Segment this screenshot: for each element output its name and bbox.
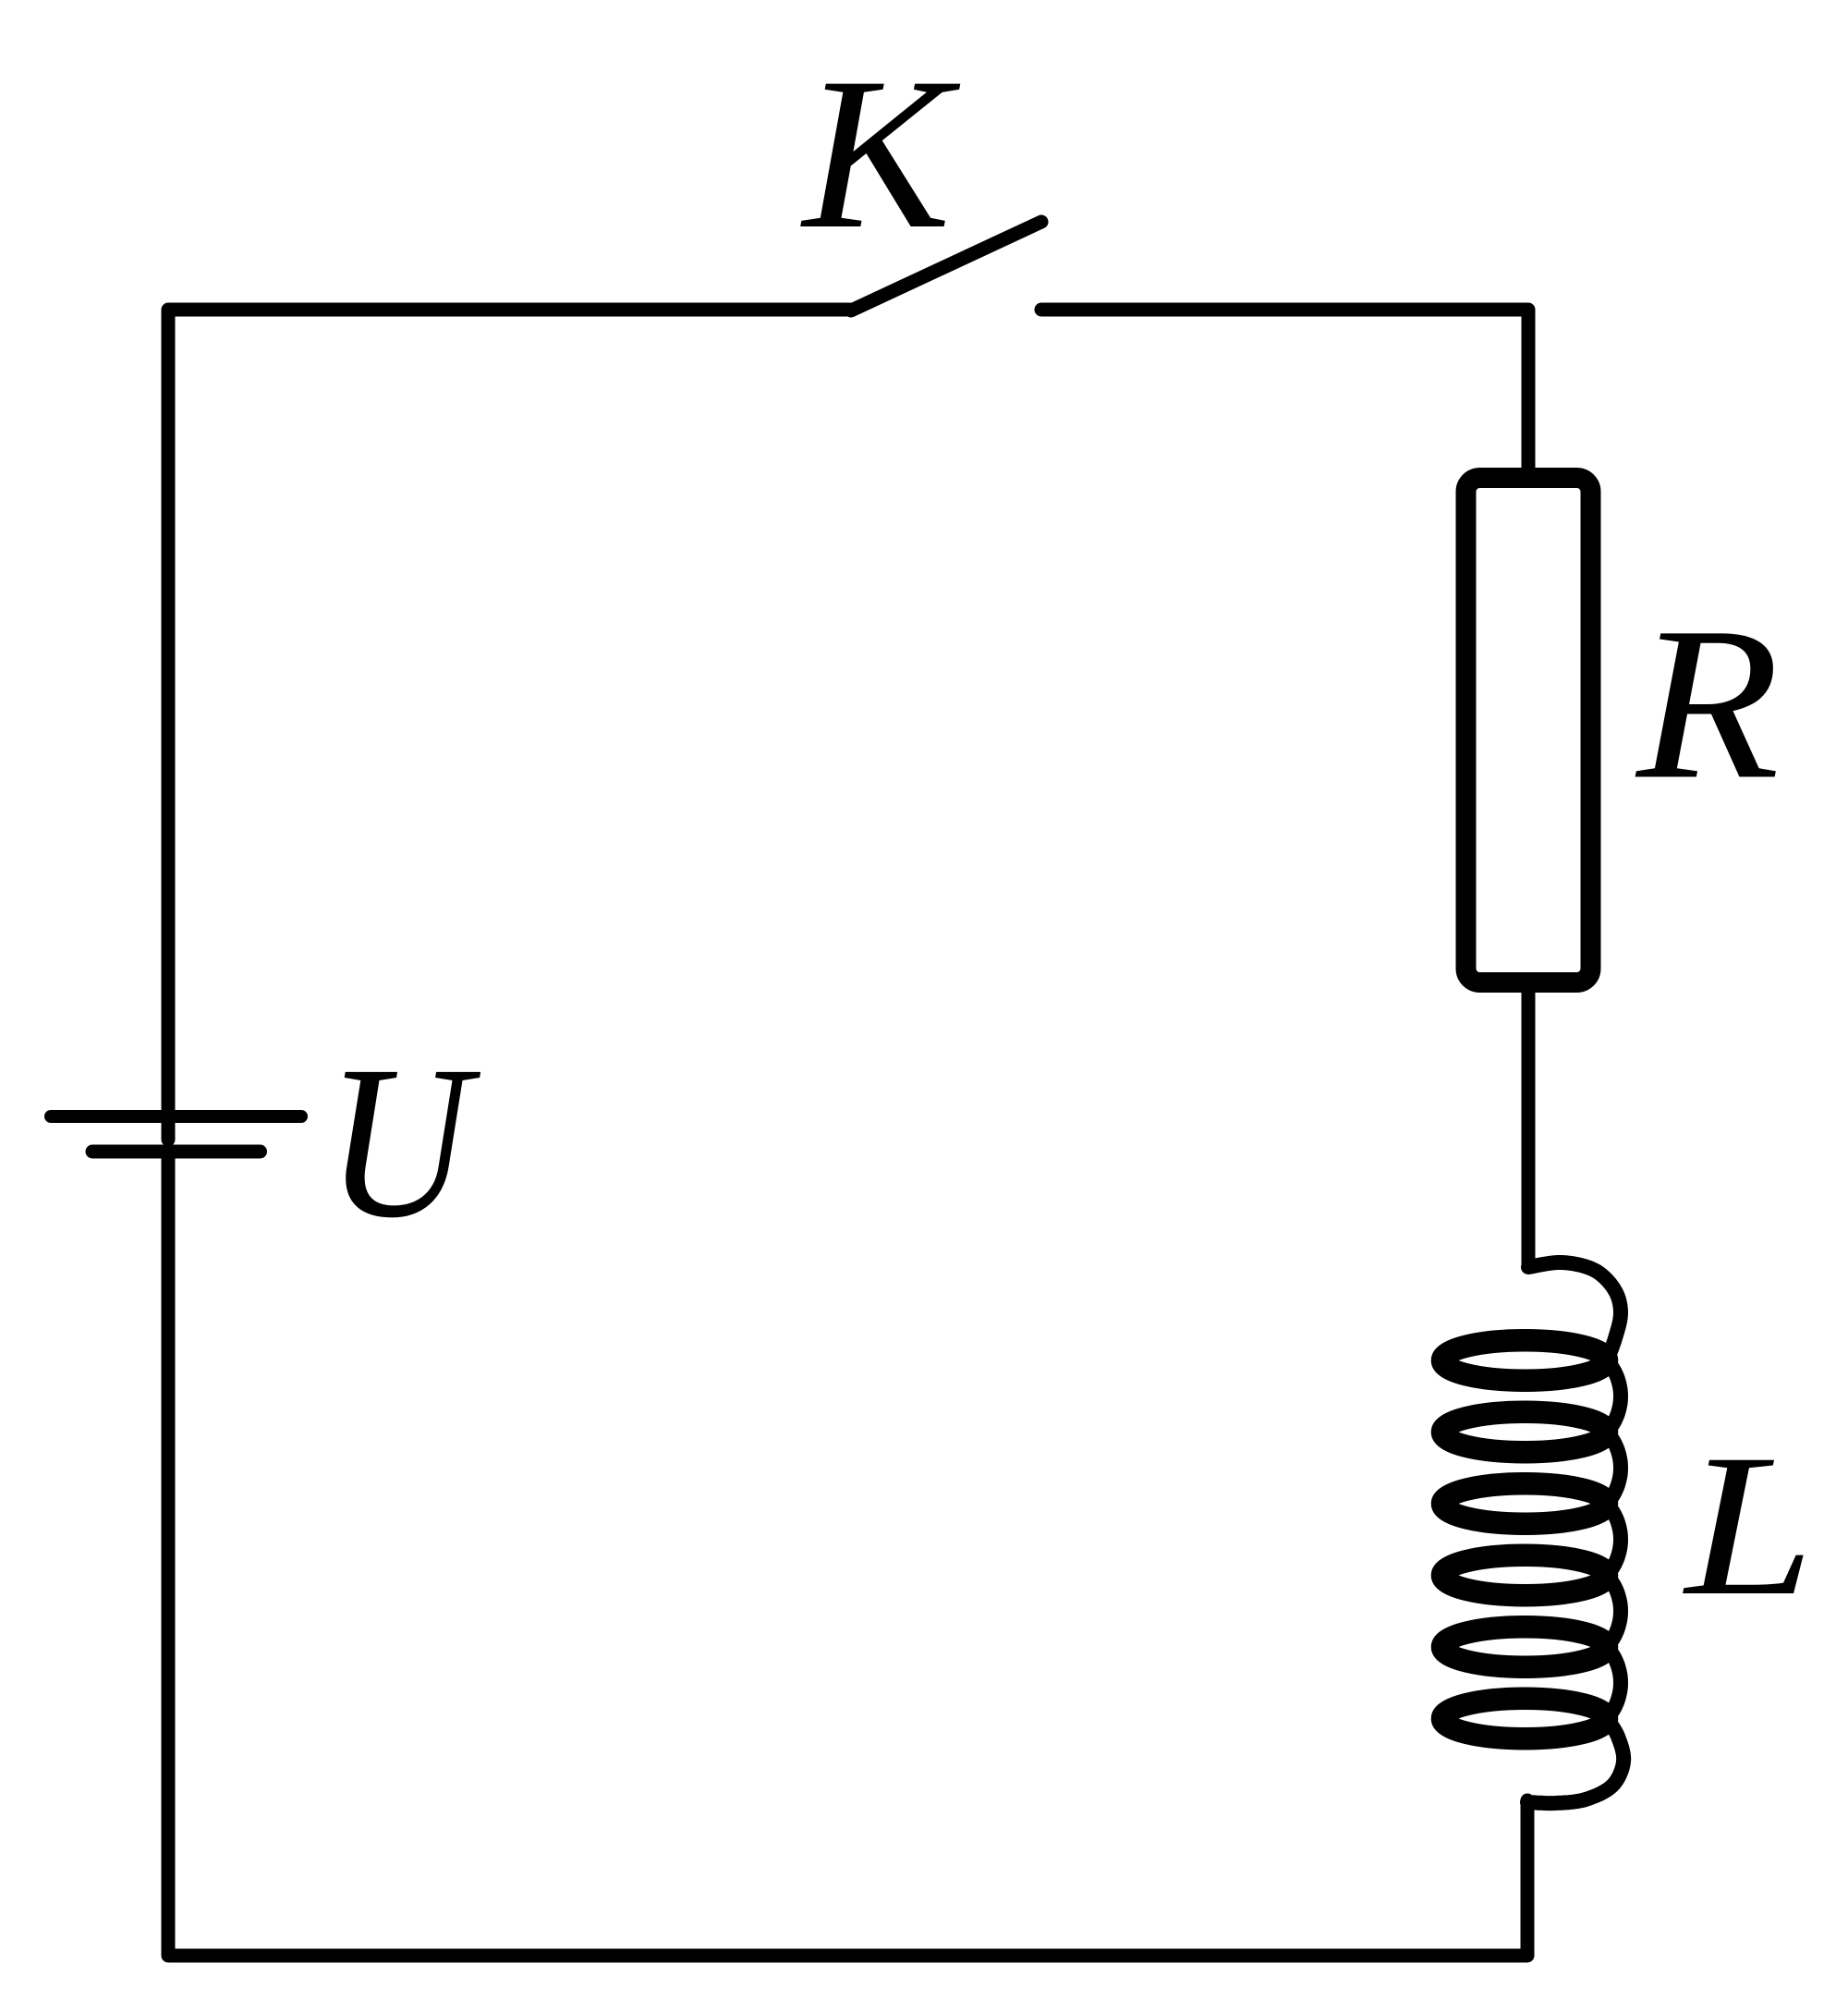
- inductor L turn 2: [1442, 1412, 1607, 1453]
- svg-text:K: K: [800, 33, 961, 274]
- inductor L turn 3: [1442, 1483, 1607, 1524]
- wire: battery bottom plate down, bottom rail, up to inductor exit: [168, 1152, 1527, 1956]
- inductor L turn 1: [1442, 1340, 1607, 1381]
- svg-text:R: R: [1635, 583, 1780, 825]
- resistor R body: [1466, 478, 1591, 982]
- wire: switch right terminal, top-right corner, down to resistor: [1041, 310, 1528, 481]
- svg-text:U: U: [326, 1021, 480, 1263]
- inductor L turn 4: [1442, 1555, 1607, 1596]
- inductor L turn 5: [1442, 1627, 1607, 1667]
- svg-text:L: L: [1683, 1412, 1815, 1638]
- wire: resistor bottom to inductor top: [1522, 980, 1536, 1266]
- inductor L turn 6: [1442, 1699, 1607, 1739]
- switch K arm (open): [851, 222, 1041, 311]
- battery U short plate: [92, 1145, 261, 1159]
- battery U long plate: [51, 1110, 301, 1123]
- wire: top rail left segment + left rail down to battery top plate: [168, 310, 851, 1140]
- inductor L backbone (entry hook, right connectors, exit hook): [1527, 1262, 1623, 1803]
